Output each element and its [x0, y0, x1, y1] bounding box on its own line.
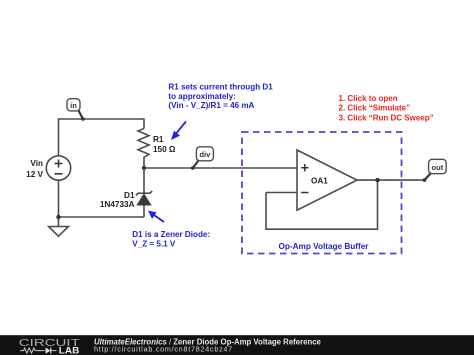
ground [49, 217, 69, 236]
svg-text:Vin: Vin [30, 159, 43, 168]
label R1 150 ohm [153, 135, 176, 154]
flag label div [191, 147, 214, 170]
svg-text:div: div [199, 150, 211, 159]
resistor R1 [138, 129, 149, 169]
svg-text:Op-Amp Voltage Buffer: Op-Amp Voltage Buffer [279, 242, 370, 251]
svg-text:to approximately:: to approximately: [168, 92, 235, 101]
label Vin 12 V [26, 159, 43, 179]
footer credit text [94, 337, 322, 353]
svg-text:1. Click to open: 1. Click to open [339, 94, 398, 103]
wire: top horizontal from source to R1 [59, 119, 145, 156]
wire: feedback loop [266, 180, 378, 229]
voltage source Vin [46, 156, 70, 180]
svg-text:out: out [431, 163, 443, 172]
wire: zener top lead [143, 168, 145, 193]
wire: div node horizontal to op-amp [144, 167, 297, 169]
node: junction dot div [142, 166, 146, 170]
annotation arrow to R1 [171, 122, 186, 141]
svg-text:LAB: LAB [59, 346, 80, 355]
zener diode D1 [136, 191, 152, 217]
dashed box op-amp voltage buffer [242, 132, 402, 254]
flag label out [423, 159, 447, 182]
flag label in [67, 99, 85, 121]
svg-text:R1 sets current through D1: R1 sets current through D1 [168, 83, 273, 92]
annotation: red numbered steps [339, 94, 434, 122]
node: junction dot output [375, 178, 379, 182]
wire: output [357, 179, 424, 181]
svg-text:12 V: 12 V [26, 170, 43, 179]
svg-text:(Vin - V_Z)/R1 = 46 mA: (Vin - V_Z)/R1 = 46 mA [168, 101, 254, 110]
svg-text:OA1: OA1 [311, 177, 328, 186]
svg-text:D1 is a Zener Diode:: D1 is a Zener Diode: [132, 230, 210, 239]
svg-text:D1: D1 [124, 191, 135, 200]
footer bar [0, 335, 474, 355]
svg-text:R1: R1 [153, 135, 164, 144]
svg-text:http://circuitlab.com/cn8t7824: http://circuitlab.com/cn8t7824cbz47 [94, 345, 233, 354]
svg-text:2. Click “Simulate”: 2. Click “Simulate” [339, 103, 411, 112]
svg-text:150 Ω: 150 Ω [153, 145, 176, 154]
svg-text:1N4733A: 1N4733A [100, 200, 135, 209]
op-amp OA1 [297, 150, 357, 210]
svg-text:V_Z = 5.1 V: V_Z = 5.1 V [132, 240, 176, 249]
footer logo CIRCUIT LAB [19, 338, 80, 355]
wire: inverting input [266, 192, 297, 194]
svg-text:3. Click “Run DC Sweep”: 3. Click “Run DC Sweep” [339, 113, 434, 122]
annotation arrow to D1 [148, 211, 164, 223]
svg-text:in: in [70, 101, 77, 110]
node: junction dot ground [56, 215, 60, 219]
wire: bottom horizontal [59, 216, 145, 218]
wire: source bottom lead [58, 180, 60, 217]
label D1 1N4733A [100, 191, 135, 209]
annotation: blue note D1 [132, 230, 210, 248]
annotation: blue note R1 [168, 83, 273, 111]
